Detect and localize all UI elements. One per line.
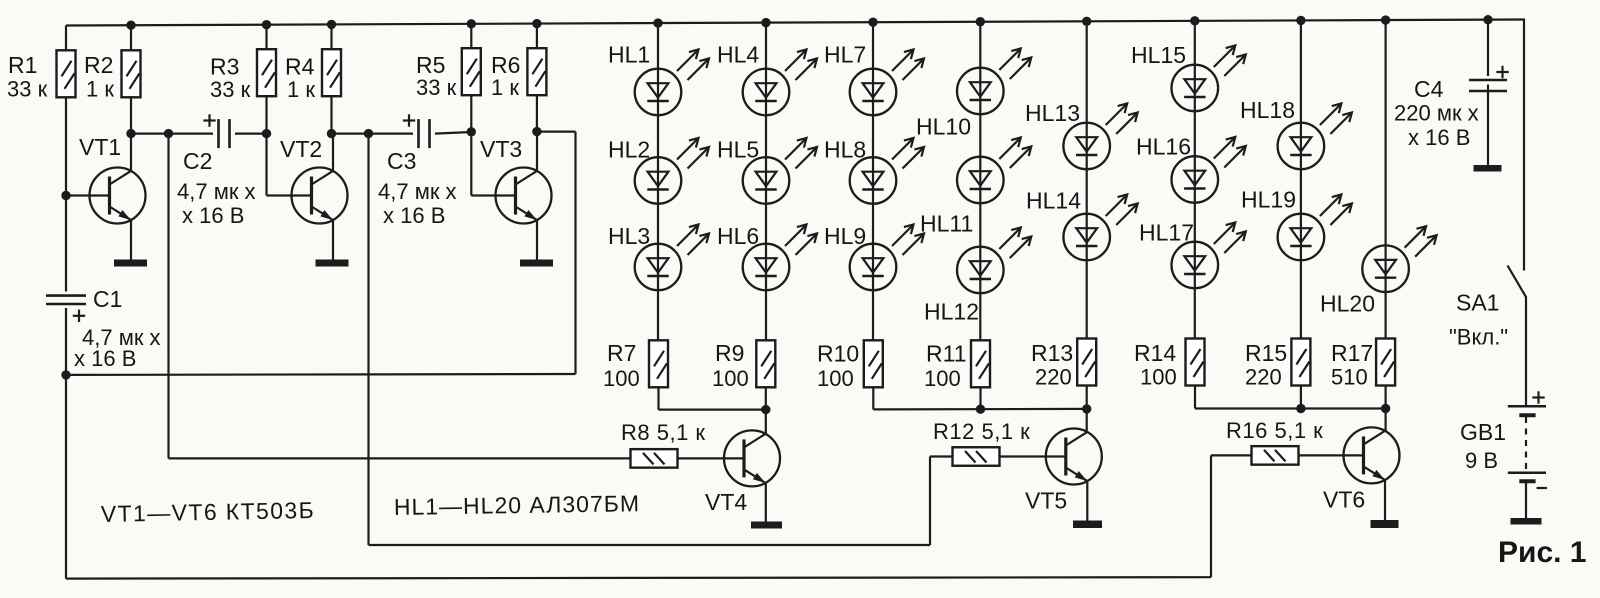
wire bottom feedback run to VT6 [66,577,1211,578]
transistor VT6 [1344,427,1400,483]
junction top bus x=980.3 [976,17,985,26]
wire to R12 left [930,455,953,457]
wire R16 to VT6 base [1299,454,1344,456]
LED HL15 [1172,46,1246,112]
svg-text:х 16 В: х 16 В [74,346,136,371]
svg-text:R9: R9 [715,340,744,366]
wire R2 top lead [130,25,132,50]
svg-text:220: 220 [1035,365,1072,390]
wire R4 top lead [330,24,332,49]
wire C4 top lead [1487,20,1489,76]
wire LED column 4 (HL10-HL12) to R11 [979,22,981,341]
wire VT2 base lead [267,194,292,196]
switch SA1 blade [1508,266,1527,298]
wire R10/R11 to VT5 collector node [873,408,1086,411]
junction top bus x=658 [653,18,662,27]
wire LED column 6 (HL15-HL17) to R14 [1194,21,1196,339]
wire LED column 2 (HL4-HL6) to R9 [765,23,767,341]
svg-text:220 мк х: 220 мк х [1394,101,1479,126]
wire R3 top lead [265,25,267,49]
junction top bus x=471.3 [467,19,476,28]
resistor R1 33k body [57,50,76,97]
svg-text:C3: C3 [387,148,416,174]
junction top bus x=1385.6 [1381,15,1390,24]
wire R7 bottom drop [657,388,659,410]
LED HL6 [743,225,817,291]
svg-text:C2: C2 [183,148,212,174]
wire C1 bottom plate lead [65,308,67,375]
junction VT1 node feedback tap [164,129,173,138]
ground VT6 emitter [1371,520,1399,528]
LED HL4 [743,50,817,116]
svg-text:C4: C4 [1414,76,1444,102]
wire R12 to VT5 base [1000,455,1046,457]
LED HL1 [635,50,709,116]
wire LED column 8 (HL20) to R17 [1384,20,1386,338]
svg-text:х 16 В: х 16 В [383,203,445,228]
transistor VT5 [1046,429,1102,485]
capacitor C4 plates [1469,80,1507,91]
wire VT1 collector riser [130,134,132,172]
svg-text:VT3: VT3 [480,136,522,162]
svg-text:HL18: HL18 [1240,97,1295,123]
LED HL3 [635,225,709,291]
svg-text:100: 100 [603,366,640,391]
battery GB1 cell 1 short plate [1519,413,1535,417]
junction R11 tie [976,405,985,414]
wire R6 bottom [536,95,538,132]
resistor R16 5.1k body [1252,446,1299,465]
svg-text:1 к: 1 к [491,75,519,100]
battery GB1 cell 2 short plate (-) [1519,479,1535,483]
svg-text:Рис. 1: Рис. 1 [1498,536,1587,569]
resistor R9 100 body [756,340,775,387]
svg-text:R11: R11 [926,341,967,367]
svg-text:R14: R14 [1134,340,1176,366]
transistor VT4 [724,430,780,486]
capacitor C1 plates [46,296,86,304]
junction VT2 collector node [327,129,336,138]
plus polarity C1 [73,310,85,322]
resistor R15 220 body [1291,339,1310,386]
svg-text:R7: R7 [607,340,636,366]
svg-text:HL7: HL7 [824,42,866,68]
svg-text:HL6: HL6 [717,223,759,249]
battery GB1 dashed middle link [1525,417,1527,469]
LED HL18 [1278,104,1352,170]
resistor R3 33k body [257,49,276,96]
junction VT3 base node [467,127,476,136]
junction top bus x=1488 [1483,15,1492,24]
junction VT2 base node [262,129,271,138]
svg-text:100: 100 [1140,365,1177,390]
wire VT3 emitter to ground [536,220,538,260]
resistor R4 1k body [322,49,341,96]
svg-text:100: 100 [924,366,961,391]
ground VT3 emitter [520,260,553,267]
wire R3 bottom / VT2 base drop [265,96,267,195]
wire GB1 minus to ground [1525,483,1527,518]
wire top supply bus [66,20,1525,26]
svg-text:HL1: HL1 [608,42,650,68]
junction top bus x=766 [761,18,770,27]
junction VT1 base tap [61,191,70,200]
junction VT6 collector tie [1381,404,1390,413]
svg-text:HL2: HL2 [608,137,650,163]
LED HL11 [957,138,1031,204]
svg-text:HL11: HL11 [920,211,973,237]
svg-text:4,7 мк х: 4,7 мк х [378,179,457,204]
resistor R8 5.1k body [631,449,678,468]
svg-text:GB1: GB1 [1460,419,1506,445]
junction C1 bottom node [61,370,70,379]
wire SA1 to GB1 plus [1525,297,1527,406]
svg-text:HL19: HL19 [1241,187,1296,213]
transistor VT1 [90,168,146,224]
wire LED column 7 (HL18-HL19) to R15 [1300,20,1302,338]
wire VT3 collector node right [537,131,576,133]
svg-text:9 В: 9 В [1465,448,1498,473]
LED HL2 [635,138,709,204]
junction top bus x=536.9 [532,19,541,28]
junction top bus x=1300.9 [1296,16,1305,25]
resistor R6 1k body [527,48,546,95]
svg-text:"Вкл.": "Вкл." [1449,325,1508,350]
svg-text:HL16: HL16 [1136,134,1191,160]
svg-text:R12 5,1 к: R12 5,1 к [933,419,1030,444]
svg-text:HL20: HL20 [1320,291,1375,317]
wire feedback VT3 node down [574,132,576,374]
svg-text:100: 100 [817,366,854,391]
svg-text:R17: R17 [1331,340,1373,366]
junction top bus x=1194.8 [1190,16,1199,25]
battery GB1 cell 2 long plate [1508,472,1546,475]
wire C4 bottom lead to ground [1487,85,1489,166]
wire VT3 collector riser [536,132,538,172]
svg-text:R2: R2 [84,52,113,78]
LED HL12 [957,228,1031,294]
wire VT2 collector node to C3 left [332,133,414,135]
wire VT1 emitter to ground [130,220,132,260]
wire feedback to R8 [169,457,631,459]
junction VT2 node feedback tap [364,129,373,138]
LED HL9 [850,225,924,291]
LED HL10 [957,49,1031,115]
resistor R13 220 body [1077,339,1096,386]
svg-text:HL9: HL9 [824,223,866,249]
svg-text:33 к: 33 к [416,75,457,100]
wire R4 bottom [330,96,332,133]
LED HL14 [1063,195,1137,261]
wire LED column 3 (HL7-HL9) to R10 [872,22,874,340]
wire R1 bottom to C1 top (VT1 base node) [65,98,67,292]
svg-text:4,7 мк х: 4,7 мк х [177,179,256,204]
svg-text:х 16 В: х 16 В [1408,125,1470,150]
svg-text:R10: R10 [817,341,859,367]
LED HL19 [1278,195,1352,261]
plus polarity GB1 [1532,391,1544,403]
wire R14 bottom drop [1194,386,1196,409]
wire right supply drop to SA1 [1523,20,1525,271]
svg-text:33 к: 33 к [7,77,48,102]
wire VT3 base lead [471,194,496,196]
wire VT2 collector riser [332,134,334,172]
svg-text:HL4: HL4 [717,42,759,68]
resistor R14 100 body [1186,339,1205,386]
svg-text:SA1: SA1 [1456,290,1499,316]
junction VT4 collector tie [761,405,770,414]
svg-text:R3: R3 [210,54,239,80]
LED HL20 [1362,226,1436,292]
wire feedback to C1 bottom [66,373,576,376]
LED HL5 [743,138,817,204]
ground VT4 emitter [751,522,782,529]
svg-text:33 к: 33 к [210,77,251,102]
wire feedback VT1 node down [167,134,169,459]
svg-text:HL5: HL5 [717,137,759,163]
svg-text:HL3: HL3 [608,223,650,249]
wire R5 top lead [470,24,472,49]
svg-text:HL13: HL13 [1025,100,1080,126]
junction R15 tie [1296,404,1305,413]
svg-text:R16 5,1 к: R16 5,1 к [1226,418,1323,443]
svg-text:VT4: VT4 [705,489,747,515]
junction VT3 collector node [532,127,541,136]
svg-text:1 к: 1 к [287,77,315,102]
LED HL7 [850,50,924,116]
svg-text:HL1—HL20 АЛ307БМ: HL1—HL20 АЛ307БМ [394,490,641,520]
svg-text:VT1—VT6 КТ503Б: VT1—VT6 КТ503Б [101,497,316,527]
wire R6 top lead [536,24,538,49]
battery GB1 cell 1 long plate (+) [1508,405,1546,408]
resistor R10 100 body [864,340,883,387]
junction VT1 collector node [126,129,135,138]
wire R10 bottom drop [872,388,874,410]
ground GB1 [1511,518,1542,525]
junction top bus x=1086.7 [1082,17,1091,26]
wire to R16 left [1211,454,1252,456]
svg-text:1 к: 1 к [86,77,114,102]
wire R13 bottom to VT5 collector [1086,386,1088,432]
wire C3 right to VT3 base node [435,132,471,134]
svg-text:HL15: HL15 [1131,42,1186,68]
transistor VT2 [292,168,348,224]
svg-text:R13: R13 [1031,340,1073,366]
ground VT1 emitter [114,260,147,267]
svg-text:220: 220 [1245,365,1282,390]
junction top bus x=873 [868,17,877,26]
wire VT4 emitter to ground [765,483,767,522]
resistor R11 100 body [971,340,990,387]
wire VT1 collector node to C2 left [131,133,213,135]
wire LED column 5 (HL13-HL14) to R13 [1086,21,1088,338]
svg-text:R1: R1 [8,52,37,78]
plus polarity C2 [203,114,215,126]
svg-text:HL10: HL10 [916,114,971,140]
svg-text:R4: R4 [285,54,315,80]
svg-text:HL12: HL12 [924,299,979,325]
junction top bus x=131 [126,21,135,30]
svg-text:HL17: HL17 [1139,220,1194,246]
wire R15 bottom [1300,386,1302,409]
svg-text:R15: R15 [1245,340,1287,366]
svg-text:100: 100 [712,366,749,391]
plus polarity C3 [403,114,415,126]
wire R9 bottom to VT4 collector [765,388,767,435]
wire feedback run to VT5 column [369,544,931,546]
svg-text:HL14: HL14 [1026,188,1081,214]
resistor R5 33k body [462,48,481,95]
plus polarity C4 [1496,66,1508,78]
svg-text:VT1: VT1 [79,134,121,160]
junction VT5 collector tie [1082,404,1091,413]
resistor R2 1k body [122,50,141,97]
svg-text:R8 5,1 к: R8 5,1 к [621,420,706,445]
wire R2 bottom to VT1 collector node [130,98,132,134]
wire R7 to VT4 collector node [659,409,766,411]
wire VT2 emitter to ground [332,220,334,260]
wire VT5 emitter to ground [1086,480,1088,521]
LED HL17 [1172,223,1246,289]
wire riser to R16 [1210,455,1212,577]
ground VT2 emitter [316,260,349,267]
LED HL8 [850,138,924,204]
wire VT6 emitter to ground [1384,480,1386,521]
resistor R7 100 body [649,340,668,387]
wire R8 to VT4 base [678,457,724,459]
wire R5 bottom / VT3 base drop [470,95,472,196]
wire R17 bottom to VT6 collector [1384,386,1386,431]
LED HL13 [1063,104,1137,170]
junction top bus x=331.5 [327,20,336,29]
wire feedback riser to R12 [929,457,931,546]
svg-text:VT2: VT2 [280,136,322,162]
LED HL16 [1172,137,1246,203]
svg-text:510: 510 [1331,365,1368,390]
transistor VT3 [496,168,552,224]
capacitor C2 plates [219,119,230,148]
svg-text:HL8: HL8 [824,137,866,163]
wire R14/R15 to VT6 collector node [1195,407,1386,409]
resistor R17 510 body [1376,339,1395,386]
wire C1 node down to bottom run [65,375,67,579]
svg-text:VT5: VT5 [1025,488,1067,514]
svg-text:х 16 В: х 16 В [182,203,244,228]
ground C4 [1474,165,1502,172]
svg-text:C1: C1 [93,286,122,312]
junction top bus x=266.5 [262,20,271,29]
wire LED column 1 (HL1-HL3) to R7 [657,23,659,340]
capacitor C3 plates [419,119,430,148]
wire R1 top lead [65,26,67,51]
wire C2 right to VT2 base node [235,133,267,135]
resistor R12 5.1k body [953,447,1000,466]
ground VT5 emitter [1073,521,1102,529]
wire R11 bottom [979,388,981,410]
minus polarity GB1 [1537,487,1548,489]
svg-text:VT6: VT6 [1323,487,1365,513]
wire VT1 base lead [66,194,90,196]
wire feedback VT2 node down [367,134,369,545]
